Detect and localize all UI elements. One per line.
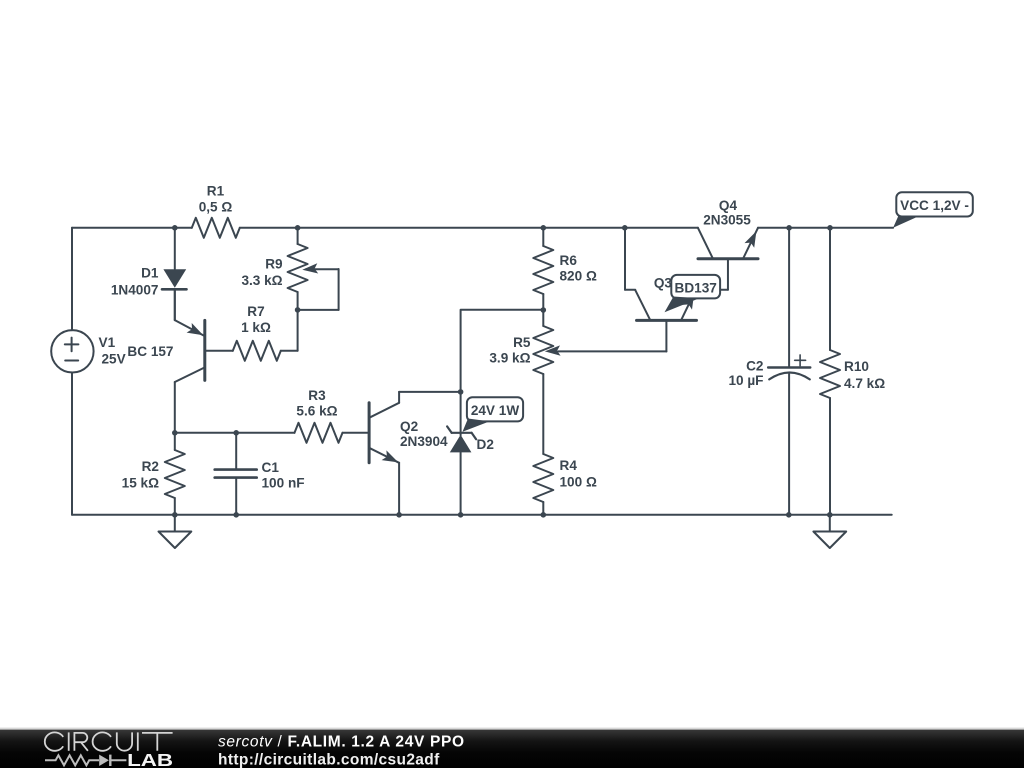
footer url http://circuitlab.com/csu2adf [218, 752, 440, 768]
svg-text:R2: R2 [142, 459, 160, 474]
svg-text:25V: 25V [102, 352, 126, 367]
svg-text:R3: R3 [308, 388, 326, 403]
svg-text:BD137: BD137 [675, 281, 717, 296]
svg-text:Q3: Q3 [654, 276, 673, 291]
svg-text:http://circuitlab.com/csu2adf: http://circuitlab.com/csu2adf [218, 752, 440, 768]
transistor Q4 2N3055 (NPN) [698, 198, 758, 259]
wire R2/C1/R3 node [175, 432, 295, 434]
wire Q3 emitter to Q4 base [696, 259, 728, 290]
svg-text:Q2: Q2 [400, 419, 419, 434]
svg-text:0,5 Ω: 0,5 Ω [199, 200, 233, 215]
wire top rail left segment [72, 227, 698, 229]
resistor R3 5.6 kΩ [295, 388, 368, 443]
svg-text:C1: C1 [262, 460, 280, 475]
svg-text:R5: R5 [513, 335, 531, 350]
wire Q2 collector to zener node [399, 391, 461, 393]
svg-text:R4: R4 [560, 458, 578, 473]
capacitor C2 10 µF (polarized) [728, 228, 810, 515]
ground symbol left [159, 515, 192, 548]
wire top rail right segment (Q4 emitter to output) [758, 227, 893, 229]
svg-text:V1: V1 [99, 335, 116, 350]
svg-text:5.6 kΩ: 5.6 kΩ [296, 404, 337, 419]
potentiometer R5 3.9 kΩ [489, 310, 666, 454]
svg-text:24V 1W: 24V 1W [471, 403, 520, 418]
wire zener node up to R6/R5 node [461, 310, 544, 392]
svg-text:Q4: Q4 [719, 198, 738, 213]
resistor R1 0,5 Ω [192, 184, 240, 238]
svg-text:D2: D2 [477, 437, 495, 452]
svg-text:3.9 kΩ: 3.9 kΩ [489, 351, 530, 366]
svg-text:15 kΩ: 15 kΩ [122, 476, 159, 491]
svg-text:D1: D1 [141, 266, 159, 281]
svg-text:1N4007: 1N4007 [111, 283, 159, 298]
resistor R6 820 Ω [533, 228, 597, 310]
label callout 24V 1W [463, 397, 524, 432]
capacitor C1 100 nF [215, 433, 305, 515]
svg-text:BC 157: BC 157 [127, 344, 173, 359]
transistor Q2 2N3904 (NPN) [369, 392, 448, 515]
footer black bar [0, 728, 1024, 768]
svg-text:LAB: LAB [127, 750, 173, 768]
svg-text:R6: R6 [560, 253, 578, 268]
svg-text:R9: R9 [265, 257, 283, 272]
svg-text:C2: C2 [746, 358, 764, 373]
svg-text:820 Ω: 820 Ω [560, 269, 597, 284]
resistor R7 1 kΩ [205, 304, 298, 361]
footer title sercotv / F.ALIM. 1.2 A 24V PPO [218, 734, 464, 751]
svg-text:100 Ω: 100 Ω [560, 475, 597, 490]
ground symbol right [813, 515, 846, 548]
svg-text:2N3904: 2N3904 [400, 434, 448, 449]
svg-text:VCC 1,2V -: VCC 1,2V - [900, 198, 969, 213]
svg-text:3.3 kΩ: 3.3 kΩ [241, 273, 282, 288]
label callout BD137 [665, 275, 721, 312]
resistor R4 100 Ω [533, 454, 597, 515]
svg-text:R7: R7 [247, 304, 264, 319]
CircuitLab logo doodle (resistor + diode) [45, 755, 126, 766]
transistor Q3 BD137 (NPN) [635, 276, 696, 352]
svg-text:R10: R10 [844, 359, 869, 374]
svg-text:4.7 kΩ: 4.7 kΩ [844, 376, 885, 391]
svg-text:R1: R1 [207, 184, 225, 199]
svg-text:100 nF: 100 nF [262, 476, 305, 491]
voltage source V1 25V [51, 330, 125, 372]
resistor R10 4.7 kΩ [820, 228, 885, 515]
svg-text:2N3055: 2N3055 [703, 213, 751, 228]
resistor R2 15 kΩ [122, 433, 185, 515]
svg-text:sercotv / F.ALIM. 1.2 A 24V PP: sercotv / F.ALIM. 1.2 A 24V PPO [218, 734, 464, 751]
wire bottom rail [72, 514, 892, 516]
transistor Q1 BC 157 (PNP) [127, 290, 204, 433]
label callout VCC 1,2V - [893, 192, 973, 227]
CircuitLab logo wordmark CIRCUIT [45, 732, 173, 750]
svg-text:10 µF: 10 µF [728, 373, 763, 388]
svg-text:1 kΩ: 1 kΩ [241, 320, 271, 335]
wire left rail [71, 228, 73, 515]
diode D1 1N4007 [111, 228, 187, 320]
transistor Q3 BD137 (NPN) wires [625, 228, 635, 290]
potentiometer R9 3.3 kΩ [241, 228, 338, 351]
zener diode D2 24V 1W [447, 392, 494, 515]
junction dots [172, 225, 833, 518]
CircuitLab logo wordmark LAB [127, 750, 173, 768]
